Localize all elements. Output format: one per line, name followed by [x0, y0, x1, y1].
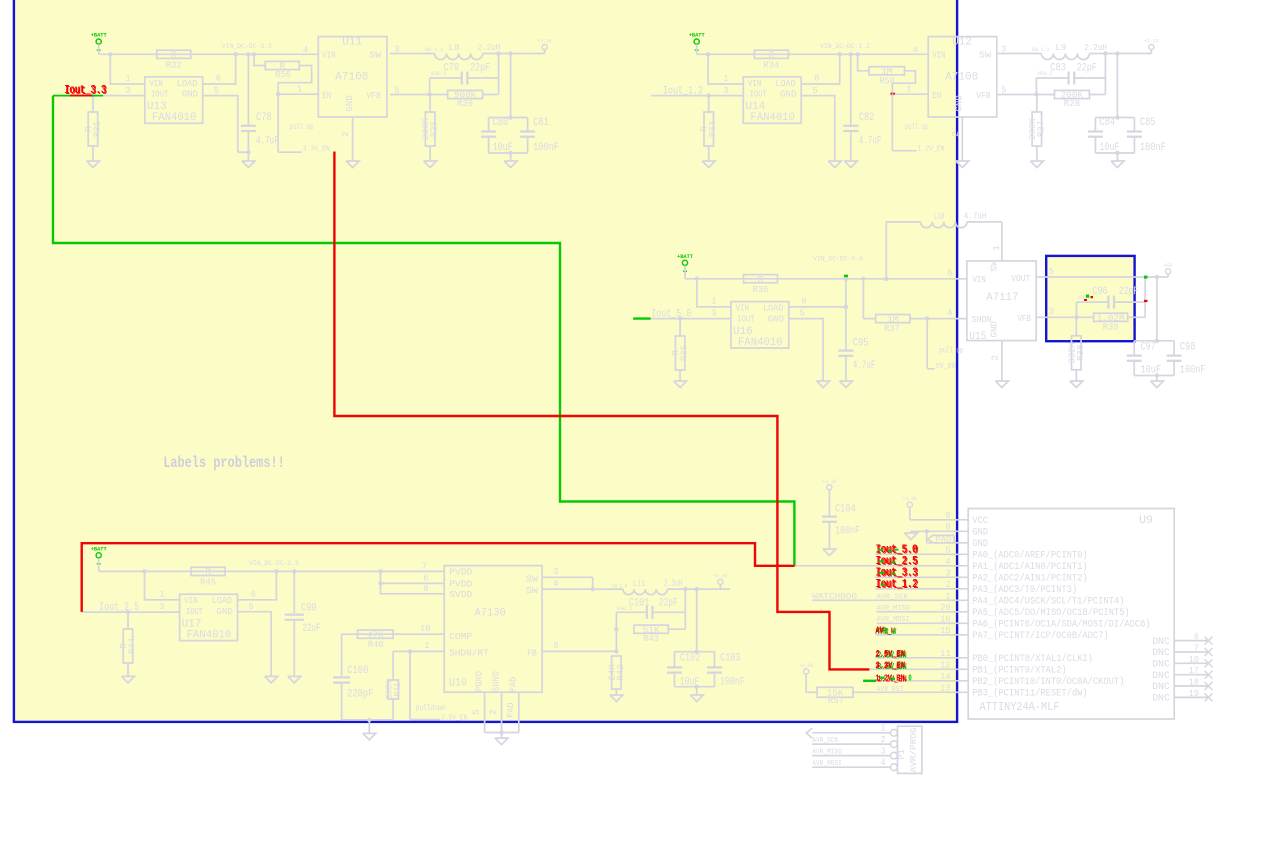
- svg-text:2.2uH: 2.2uH: [478, 42, 501, 53]
- svg-text:LOAD: LOAD: [212, 595, 233, 606]
- svg-text:1: 1: [424, 640, 429, 651]
- svg-text:10: 10: [1189, 654, 1200, 665]
- svg-text:DNC: DNC: [1152, 660, 1170, 671]
- svg-text:3: 3: [159, 601, 164, 612]
- svg-text:C96: C96: [1092, 286, 1107, 298]
- svg-text:3: 3: [881, 745, 886, 756]
- svg-text:DNC: DNC: [1152, 671, 1170, 682]
- svg-text:AVR_MISO: AVR_MISO: [812, 749, 842, 757]
- svg-text:PA7_(PCINT7/ICP/OC0B/ADC7): PA7_(PCINT7/ICP/OC0B/ADC7): [972, 630, 1108, 642]
- svg-text:+3.3V: +3.3V: [537, 38, 552, 45]
- svg-text:5: 5: [214, 85, 219, 96]
- svg-text:100nF: 100nF: [1180, 364, 1206, 376]
- svg-text:+5V: +5V: [1164, 262, 1173, 269]
- svg-text:C83: C83: [1050, 63, 1066, 75]
- svg-text:1: 1: [125, 73, 130, 84]
- svg-text:GND: GND: [972, 528, 988, 539]
- svg-text:GND: GND: [182, 89, 199, 100]
- svg-text:PA6_(PCINT6/OC1A/SDA/MOSI/DI/A: PA6_(PCINT6/OC1A/SDA/MOSI/DI/ADC6): [972, 619, 1150, 631]
- svg-text:C80: C80: [493, 117, 509, 129]
- svg-text:PA3_(ADC3/T0/PCINT3): PA3_(ADC3/T0/PCINT3): [972, 584, 1077, 596]
- svg-text:R31: R31: [92, 121, 103, 137]
- svg-text:3: 3: [125, 85, 130, 96]
- svg-text:4.7uF: 4.7uF: [256, 136, 279, 148]
- svg-text:R25: R25: [429, 121, 440, 137]
- svg-text:5: 5: [1049, 266, 1054, 277]
- svg-text:4: 4: [945, 556, 950, 567]
- svg-text:FAN4010: FAN4010: [187, 630, 232, 642]
- svg-text:2: 2: [950, 131, 961, 137]
- svg-text:R38: R38: [1075, 344, 1086, 360]
- svg-text:5: 5: [394, 85, 399, 96]
- svg-text:100nF: 100nF: [835, 526, 860, 538]
- svg-text:DNC: DNC: [1152, 682, 1170, 693]
- svg-text:VFB2.5: VFB2.5: [616, 605, 632, 612]
- svg-text:R32: R32: [166, 59, 182, 70]
- svg-text:5: 5: [945, 544, 950, 555]
- svg-text:VIN_DC-DC-5.0: VIN_DC-DC-5.0: [813, 255, 863, 262]
- svg-text:R41: R41: [392, 682, 403, 696]
- svg-text:VIN: VIN: [973, 274, 986, 285]
- svg-text:C95: C95: [853, 337, 869, 349]
- svg-text:IOUT: IOUT: [151, 89, 168, 100]
- svg-text:GND: GND: [780, 89, 797, 100]
- svg-text:VIN: VIN: [736, 303, 749, 314]
- svg-text:GND: GND: [989, 321, 1000, 338]
- svg-text:3.3V_EN: 3.3V_EN: [876, 660, 906, 671]
- svg-text:3: 3: [1001, 44, 1006, 55]
- svg-text:220pF: 220pF: [347, 688, 373, 700]
- svg-text:1: 1: [711, 296, 716, 307]
- svg-text:LOAD: LOAD: [763, 303, 784, 314]
- svg-text:SGND: SGND: [491, 671, 502, 692]
- svg-text:R28: R28: [1064, 98, 1080, 109]
- svg-text:VOUT: VOUT: [1011, 273, 1030, 284]
- svg-text:3: 3: [711, 308, 716, 319]
- svg-text:EN: EN: [932, 90, 941, 101]
- svg-text:22uF: 22uF: [303, 623, 321, 635]
- svg-text:COMP: COMP: [449, 631, 473, 642]
- svg-text:C81: C81: [533, 117, 549, 129]
- svg-text:A7130: A7130: [475, 608, 506, 620]
- svg-text:AV: AV: [876, 625, 884, 636]
- svg-text:1.2V_EN: 1.2V_EN: [918, 146, 945, 154]
- svg-text:1: 1: [881, 723, 886, 734]
- svg-text:AVR_MISO: AVR_MISO: [877, 605, 911, 613]
- svg-text:SW: SW: [526, 585, 539, 596]
- svg-text:SVDD: SVDD: [449, 589, 473, 600]
- svg-text:3: 3: [1049, 306, 1054, 317]
- svg-text:7: 7: [1194, 643, 1199, 654]
- svg-text:PA2_(ADC2/AIN1/PCINT2): PA2_(ADC2/AIN1/PCINT2): [972, 573, 1087, 585]
- svg-text:AVR_MOSI: AVR_MOSI: [877, 616, 910, 624]
- svg-text:2.2uH: 2.2uH: [664, 577, 683, 588]
- svg-text:SW: SW: [989, 260, 1000, 272]
- svg-text:R39: R39: [1103, 322, 1119, 333]
- svg-text:VCC: VCC: [972, 516, 988, 527]
- svg-text:PA5_(ADC5/DO/MISO/OC1B/PCINT5): PA5_(ADC5/DO/MISO/OC1B/PCINT5): [972, 607, 1129, 619]
- svg-text:C82: C82: [859, 112, 875, 124]
- svg-text:SW 2.5: SW 2.5: [612, 583, 627, 590]
- svg-text:18: 18: [1189, 677, 1200, 688]
- svg-text:+2.5V: +2.5V: [713, 572, 728, 579]
- svg-text:R40: R40: [368, 639, 384, 650]
- svg-text:6: 6: [423, 573, 428, 584]
- svg-text:R56: R56: [275, 69, 291, 80]
- svg-text:2: 2: [488, 709, 499, 715]
- svg-text:4: 4: [913, 45, 918, 56]
- svg-text:2: 2: [945, 579, 950, 590]
- svg-text:EN: EN: [322, 90, 331, 101]
- svg-text:3: 3: [394, 44, 399, 55]
- svg-text:VIN_DC-DC-1.2: VIN_DC-DC-1.2: [820, 43, 870, 50]
- svg-text:PB1_(PCINT9/XTAL2): PB1_(PCINT9/XTAL2): [972, 665, 1066, 677]
- svg-text:3: 3: [553, 566, 558, 577]
- svg-text:PB3_(PCINT11/RESET/dW): PB3_(PCINT11/RESET/dW): [972, 688, 1087, 700]
- svg-text:20: 20: [940, 602, 951, 613]
- svg-text:DNC: DNC: [1152, 637, 1170, 648]
- svg-text:22pF: 22pF: [659, 597, 678, 609]
- svg-text:+3.3V: +3.3V: [799, 662, 814, 669]
- svg-text:+BATT: +BATT: [689, 32, 706, 39]
- svg-text:PAD: PAD: [508, 677, 519, 692]
- svg-text:5V_EN: 5V_EN: [936, 363, 956, 371]
- svg-text:C100: C100: [347, 665, 368, 677]
- svg-text:L9: L9: [1055, 42, 1066, 53]
- svg-text:PB2_(PCINT10/INT0/OC0A/CKOUT): PB2_(PCINT10/INT0/OC0A/CKOUT): [972, 676, 1124, 688]
- svg-text:VFB: VFB: [366, 90, 381, 101]
- svg-text:22pF: 22pF: [1077, 63, 1097, 75]
- svg-text:9: 9: [553, 640, 558, 651]
- svg-text:P1: P1: [896, 749, 907, 759]
- svg-text:6: 6: [801, 296, 806, 307]
- svg-text:pulldown: pulldown: [416, 704, 446, 713]
- svg-text:C99: C99: [301, 603, 317, 615]
- svg-text:5: 5: [470, 709, 481, 715]
- svg-text:AVR/PROG: AVR/PROG: [909, 728, 919, 773]
- svg-text:R37: R37: [884, 323, 900, 334]
- svg-text:4.7uF: 4.7uF: [853, 360, 876, 372]
- svg-text:+BATT: +BATT: [91, 545, 108, 552]
- svg-text:GND: GND: [768, 313, 785, 324]
- svg-text:R43: R43: [643, 633, 659, 644]
- svg-text:VIN: VIN: [322, 50, 335, 61]
- svg-text:FAN4010: FAN4010: [750, 112, 795, 124]
- svg-text:5: 5: [799, 308, 804, 319]
- svg-text:2.5V_EN: 2.5V_EN: [876, 648, 906, 659]
- svg-text:IOUT: IOUT: [186, 606, 203, 617]
- svg-text:3.3V_EN: 3.3V_EN: [303, 146, 330, 154]
- svg-text:3: 3: [723, 85, 728, 96]
- svg-text:12: 12: [940, 659, 951, 670]
- svg-text:9: 9: [945, 510, 950, 521]
- svg-text:AVR_SCK: AVR_SCK: [877, 593, 909, 601]
- svg-text:R44: R44: [127, 638, 138, 654]
- svg-text:19: 19: [1189, 688, 1200, 699]
- svg-text:PA0_(ADC0/AREF/PCINT0): PA0_(ADC0/AREF/PCINT0): [972, 550, 1087, 562]
- svg-text:2: 2: [989, 355, 1000, 361]
- svg-text:pull up: pull up: [939, 347, 963, 356]
- svg-text:VIN: VIN: [184, 595, 197, 606]
- svg-text:ATTINY24A-MLF: ATTINY24A-MLF: [980, 701, 1060, 714]
- svg-text:16: 16: [940, 613, 951, 624]
- svg-text:+BATT: +BATT: [91, 32, 108, 39]
- svg-text:C79: C79: [444, 63, 460, 75]
- svg-text:4: 4: [553, 578, 558, 589]
- svg-text:AVR_RST: AVR_RST: [877, 686, 904, 694]
- svg-text:10uF: 10uF: [1141, 364, 1162, 376]
- svg-text:LOAD: LOAD: [775, 78, 796, 89]
- svg-text:+3.3V: +3.3V: [903, 495, 918, 502]
- svg-text:6: 6: [814, 73, 819, 84]
- svg-text:A7117: A7117: [986, 292, 1018, 304]
- svg-text:11: 11: [940, 648, 951, 659]
- svg-text:WATCHDOG: WATCHDOG: [812, 592, 857, 602]
- svg-text:4: 4: [881, 757, 886, 768]
- svg-text:Iout_1.2: Iout_1.2: [663, 86, 703, 98]
- svg-text:GND: GND: [216, 606, 233, 617]
- svg-text:R36: R36: [753, 284, 769, 295]
- svg-text:2: 2: [340, 131, 351, 137]
- svg-text:VFB: VFB: [1017, 313, 1031, 324]
- svg-text:+1.2V: +1.2V: [1144, 38, 1159, 45]
- svg-text:17: 17: [1189, 665, 1199, 676]
- svg-text:10: 10: [420, 623, 431, 634]
- svg-text:IOUT: IOUT: [737, 313, 754, 324]
- svg-text:PVDD: PVDD: [449, 567, 473, 578]
- svg-text:C103: C103: [720, 653, 740, 665]
- svg-text:GND: GND: [344, 95, 355, 112]
- svg-text:VIN: VIN: [748, 78, 761, 89]
- svg-text:1: 1: [945, 590, 950, 601]
- svg-text:SW: SW: [369, 50, 381, 61]
- svg-text:L10: L10: [933, 210, 944, 221]
- svg-text:8: 8: [423, 583, 428, 594]
- svg-text:VIN: VIN: [932, 50, 945, 61]
- svg-text:13: 13: [940, 682, 951, 693]
- svg-text:10uF: 10uF: [1099, 142, 1119, 154]
- svg-text:5: 5: [812, 85, 817, 96]
- svg-text:6: 6: [1194, 631, 1199, 642]
- svg-text:U10: U10: [449, 678, 467, 690]
- svg-text:R42: R42: [615, 664, 626, 680]
- svg-text:SW: SW: [526, 573, 539, 584]
- svg-text:7: 7: [422, 561, 427, 572]
- svg-text:PVDD: PVDD: [449, 579, 473, 590]
- svg-text:SHDN/RT: SHDN/RT: [449, 647, 489, 658]
- svg-text:Iout_2.5: Iout_2.5: [99, 602, 139, 614]
- svg-text:U15: U15: [969, 331, 986, 343]
- svg-text:C104: C104: [835, 504, 856, 516]
- svg-text:Labels problems!!: Labels problems!!: [163, 454, 285, 472]
- svg-text:100nF: 100nF: [1140, 142, 1166, 154]
- svg-text:4: 4: [303, 45, 308, 56]
- svg-text:U11: U11: [342, 36, 362, 48]
- svg-text:C84: C84: [1099, 117, 1115, 129]
- svg-text:AVR_SCK: AVR_SCK: [812, 737, 838, 745]
- svg-text:1: 1: [297, 84, 302, 95]
- svg-text:R57: R57: [828, 695, 845, 706]
- svg-text:C97: C97: [1141, 342, 1156, 354]
- svg-text:VIN: VIN: [150, 78, 163, 89]
- svg-text:22pF: 22pF: [470, 63, 490, 75]
- svg-text:PAD: PAD: [935, 535, 951, 545]
- svg-text:1: 1: [906, 84, 911, 95]
- svg-text:C98: C98: [1180, 342, 1196, 354]
- svg-text:FB: FB: [527, 647, 537, 658]
- svg-text:L8: L8: [449, 42, 460, 53]
- svg-text:DNC: DNC: [1152, 648, 1170, 659]
- svg-text:R26: R26: [457, 98, 473, 109]
- svg-text:AVR_MOSI: AVR_MOSI: [812, 760, 842, 768]
- svg-text:.0: .0: [905, 673, 912, 684]
- svg-text:+BATT: +BATT: [677, 253, 694, 260]
- svg-text:C85: C85: [1140, 117, 1156, 129]
- svg-text:IOUT: IOUT: [750, 89, 767, 100]
- svg-text:GND: GND: [972, 539, 988, 550]
- svg-text:4.7uF: 4.7uF: [859, 136, 882, 148]
- svg-text:22pF: 22pF: [1119, 286, 1138, 298]
- svg-text:3: 3: [945, 567, 950, 578]
- svg-text:C78: C78: [256, 112, 272, 124]
- svg-text:FAN4010: FAN4010: [152, 112, 197, 124]
- svg-text:SW 1.2: SW 1.2: [1032, 46, 1050, 53]
- svg-text:6: 6: [947, 267, 952, 278]
- svg-text:FAN4010: FAN4010: [738, 337, 783, 349]
- svg-text:A7108: A7108: [335, 72, 368, 84]
- svg-text:SW 3.3: SW 3.3: [425, 46, 443, 53]
- svg-text:5: 5: [249, 601, 254, 612]
- svg-text:R27: R27: [1035, 121, 1046, 137]
- svg-text:R33: R33: [707, 121, 718, 137]
- svg-text:1: 1: [723, 73, 728, 84]
- svg-text:2.5V_EN: 2.5V_EN: [441, 714, 467, 722]
- svg-text:10uF: 10uF: [493, 142, 513, 154]
- svg-text:U9: U9: [1139, 515, 1153, 527]
- svg-text:PA1_(ADC1/AIN0/PCINT1): PA1_(ADC1/AIN0/PCINT1): [972, 561, 1087, 573]
- svg-text:VFB: VFB: [976, 90, 991, 101]
- svg-text:100nF: 100nF: [533, 142, 559, 154]
- svg-text:1: 1: [159, 589, 164, 600]
- svg-text:VFB1.2: VFB1.2: [1037, 70, 1052, 77]
- svg-text:C102: C102: [680, 653, 700, 665]
- svg-text:6: 6: [216, 73, 221, 84]
- svg-text:2: 2: [881, 734, 886, 745]
- svg-text:15: 15: [940, 625, 951, 636]
- svg-text:PAD: PAD: [505, 702, 516, 717]
- svg-text:VFB3.3: VFB3.3: [431, 70, 446, 77]
- svg-text:LOAD: LOAD: [177, 78, 198, 89]
- svg-text:U12: U12: [952, 36, 972, 48]
- svg-text:pull up: pull up: [289, 123, 313, 132]
- svg-text:5: 5: [1001, 85, 1006, 96]
- svg-text:Iout_5.0: Iout_5.0: [651, 309, 691, 321]
- svg-text:PB0_(PCINT8/XTAL1/CLKI): PB0_(PCINT8/XTAL1/CLKI): [972, 653, 1093, 665]
- svg-text:PGND: PGND: [474, 671, 485, 692]
- svg-text:pull up: pull up: [905, 123, 928, 132]
- svg-text:100nF: 100nF: [720, 677, 745, 689]
- svg-text:14: 14: [940, 671, 951, 682]
- svg-text:L11: L11: [633, 578, 646, 589]
- svg-text:VIN_DC-DC-3.3: VIN_DC-DC-3.3: [222, 43, 272, 50]
- svg-text:6: 6: [251, 589, 256, 600]
- svg-text:4: 4: [947, 308, 952, 319]
- svg-text:8: 8: [945, 521, 950, 532]
- svg-text:1: 1: [991, 245, 1002, 251]
- svg-text:R45: R45: [200, 576, 216, 587]
- svg-text:2.2uH: 2.2uH: [1084, 42, 1107, 53]
- svg-text:GND: GND: [954, 95, 965, 112]
- svg-text:A7108: A7108: [945, 72, 978, 84]
- svg-text:4.7uH: 4.7uH: [964, 210, 987, 221]
- svg-text:+3.3V: +3.3V: [822, 478, 837, 485]
- svg-text:DNC: DNC: [1152, 694, 1170, 705]
- svg-text:R35: R35: [679, 345, 690, 361]
- svg-text:VIN_DC-DC-2.5: VIN_DC-DC-2.5: [249, 560, 299, 567]
- svg-text:10uF: 10uF: [680, 677, 700, 689]
- svg-text:R34: R34: [763, 59, 779, 70]
- svg-text:SW: SW: [979, 50, 991, 61]
- svg-text:PA4_(ADC4/USCK/SCL/T1/PCINT4): PA4_(ADC4/USCK/SCL/T1/PCINT4): [972, 596, 1124, 608]
